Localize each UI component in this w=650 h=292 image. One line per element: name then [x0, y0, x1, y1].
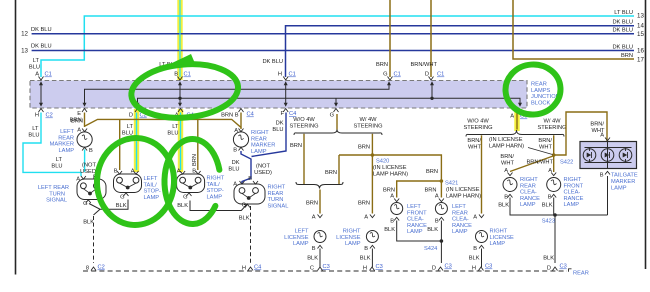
svg-text:LAMP: LAMP — [520, 202, 536, 208]
svg-text:A: A — [77, 128, 81, 134]
svg-text:(IN LICENSE: (IN LICENSE — [373, 165, 407, 171]
svg-text:BRN: BRN — [70, 118, 82, 124]
svg-text:RIGHT: RIGHT — [520, 177, 538, 183]
svg-text:14: 14 — [637, 23, 644, 30]
svg-text:BRN: BRN — [306, 201, 318, 207]
svg-text:C4: C4 — [254, 265, 261, 271]
svg-text:LEFT: LEFT — [407, 204, 421, 210]
svg-text:B: B — [312, 246, 316, 252]
svg-text:RIGHT: RIGHT — [343, 229, 361, 235]
svg-text:LT: LT — [33, 58, 40, 64]
svg-text:BLK: BLK — [542, 203, 553, 209]
svg-text:H: H — [472, 266, 476, 272]
svg-text:H: H — [242, 266, 246, 272]
svg-text:A: A — [76, 177, 80, 183]
svg-text:S423: S423 — [542, 219, 555, 225]
svg-text:TAIL/: TAIL/ — [144, 182, 158, 188]
svg-text:BLK: BLK — [83, 220, 94, 226]
svg-text:BLU: BLU — [51, 164, 62, 170]
svg-text:CLEA-: CLEA- — [564, 190, 581, 196]
svg-text:A: A — [364, 215, 368, 221]
svg-text:C3: C3 — [560, 264, 567, 270]
svg-text:RIGHT: RIGHT — [268, 185, 286, 191]
svg-text:A: A — [233, 182, 237, 188]
svg-text:D: D — [432, 266, 436, 272]
svg-text:17: 17 — [637, 57, 644, 64]
svg-text:SIGNAL: SIGNAL — [46, 198, 67, 204]
svg-text:BLU: BLU — [28, 133, 39, 139]
svg-text:15: 15 — [637, 31, 644, 38]
svg-text:G: G — [120, 195, 124, 201]
svg-text:BRN: BRN — [290, 143, 302, 149]
svg-text:C1: C1 — [437, 72, 444, 78]
svg-text:B: B — [473, 246, 477, 252]
svg-text:LAMP: LAMP — [490, 241, 506, 247]
svg-text:A: A — [510, 114, 514, 120]
svg-text:REAR: REAR — [58, 135, 74, 141]
svg-text:LT: LT — [56, 157, 63, 163]
svg-text:LAMP HARN): LAMP HARN) — [446, 194, 481, 200]
svg-text:H: H — [35, 113, 39, 119]
svg-text:BRN: BRN — [376, 62, 388, 68]
svg-text:B: B — [435, 219, 439, 225]
svg-text:DK BLU: DK BLU — [612, 45, 633, 51]
svg-text:RANCE: RANCE — [564, 196, 584, 202]
svg-text:BRN/: BRN/ — [590, 122, 604, 128]
svg-text:(IN LICENSE: (IN LICENSE — [489, 137, 523, 143]
svg-text:LAMP: LAMP — [345, 241, 361, 247]
svg-text:STOP-: STOP- — [207, 188, 224, 194]
svg-text:DK BLU: DK BLU — [31, 27, 52, 33]
svg-text:RIGHT: RIGHT — [251, 130, 269, 136]
svg-text:LAMP: LAMP — [611, 186, 627, 192]
svg-text:BLK: BLK — [384, 227, 395, 233]
svg-text:W/ 4W: W/ 4W — [543, 119, 561, 125]
svg-text:CLEA-: CLEA- — [520, 190, 537, 196]
svg-text:C3: C3 — [376, 264, 383, 270]
svg-text:LT: LT — [172, 124, 179, 130]
svg-text:LICENSE: LICENSE — [490, 235, 515, 241]
svg-text:STEERING: STEERING — [463, 125, 492, 131]
svg-text:A: A — [473, 215, 477, 221]
svg-text:LAMP: LAMP — [564, 202, 580, 208]
svg-text:MARKER: MARKER — [611, 179, 635, 185]
svg-text:B: B — [390, 219, 394, 225]
svg-text:C1: C1 — [394, 72, 401, 78]
svg-text:WHT: WHT — [539, 145, 552, 151]
svg-text:FRONT: FRONT — [407, 210, 427, 216]
svg-text:RANCE: RANCE — [407, 223, 427, 229]
svg-text:BRN: BRN — [192, 154, 198, 166]
svg-text:A: A — [177, 169, 181, 175]
svg-text:LEFT: LEFT — [144, 176, 158, 182]
svg-text:BLK: BLK — [239, 216, 250, 222]
svg-text:BRN: BRN — [621, 53, 633, 59]
svg-text:RANCE: RANCE — [452, 223, 472, 229]
svg-text:BRN/WHT: BRN/WHT — [410, 62, 437, 68]
svg-text:B: B — [504, 195, 508, 201]
svg-text:DK: DK — [276, 121, 284, 127]
svg-text:LEFT: LEFT — [452, 204, 466, 210]
svg-text:G: G — [330, 113, 334, 119]
svg-text:TAILGATE: TAILGATE — [611, 173, 638, 179]
svg-text:LICENSE: LICENSE — [284, 235, 309, 241]
svg-text:A: A — [131, 169, 135, 175]
svg-text:W/O 4W: W/O 4W — [293, 117, 315, 123]
svg-text:A: A — [504, 168, 508, 174]
svg-text:BLK: BLK — [177, 203, 188, 209]
svg-text:REAR: REAR — [268, 191, 284, 197]
svg-text:BRN/: BRN/ — [467, 138, 481, 144]
svg-text:BRN: BRN — [325, 170, 337, 176]
svg-text:W/O 4W: W/O 4W — [467, 119, 489, 125]
svg-text:(NOT: (NOT — [82, 163, 96, 169]
svg-text:S421: S421 — [445, 181, 458, 187]
svg-text:S424: S424 — [424, 246, 437, 252]
svg-text:STEERING: STEERING — [353, 124, 382, 130]
svg-text:8: 8 — [86, 266, 89, 272]
svg-text:B: B — [192, 169, 196, 175]
svg-text:13: 13 — [637, 13, 644, 20]
svg-text:BRN: BRN — [426, 169, 438, 175]
svg-text:C: C — [310, 266, 314, 272]
svg-text:C3: C3 — [323, 264, 330, 270]
svg-text:C4: C4 — [247, 112, 254, 118]
svg-text:BLK: BLK — [469, 256, 480, 262]
svg-text:S422: S422 — [560, 160, 573, 166]
svg-text:C3: C3 — [485, 264, 492, 270]
svg-text:LAMP: LAMP — [59, 148, 75, 154]
svg-text:REAR: REAR — [251, 136, 267, 142]
svg-text:CLEA-: CLEA- — [407, 217, 424, 223]
svg-text:B: B — [364, 246, 368, 252]
svg-text:BRN/: BRN/ — [500, 154, 514, 160]
svg-text:TAIL/: TAIL/ — [207, 182, 221, 188]
svg-text:STOP-: STOP- — [144, 189, 161, 195]
svg-text:D: D — [129, 113, 133, 119]
svg-text:LEFT: LEFT — [60, 129, 74, 135]
svg-text:BRN B: BRN B — [221, 113, 239, 119]
svg-text:BLU: BLU — [167, 131, 178, 137]
svg-text:BLOCK: BLOCK — [531, 100, 550, 106]
svg-text:LAMP: LAMP — [293, 241, 309, 247]
svg-text:A: A — [312, 215, 316, 221]
svg-text:A: A — [390, 194, 394, 200]
svg-text:D: D — [547, 266, 551, 272]
svg-text:BRN/WHT: BRN/WHT — [526, 160, 553, 166]
svg-text:WHT: WHT — [592, 128, 605, 134]
svg-text:A: A — [234, 128, 238, 134]
svg-text:BLK: BLK — [307, 256, 318, 262]
svg-text:LEFT: LEFT — [295, 229, 309, 235]
svg-text:BLK: BLK — [543, 256, 554, 262]
svg-text:B: B — [233, 148, 237, 154]
svg-text:B: B — [89, 148, 93, 154]
svg-text:BLU: BLU — [272, 127, 283, 133]
svg-text:BLK: BLK — [427, 227, 438, 233]
svg-text:A: A — [548, 168, 552, 174]
svg-text:TURN: TURN — [268, 197, 284, 203]
svg-text:G: G — [83, 201, 87, 207]
svg-text:DK BLU: DK BLU — [262, 59, 283, 65]
svg-text:(NOT: (NOT — [256, 164, 270, 170]
svg-text:REAR: REAR — [520, 183, 536, 189]
svg-text:G: G — [383, 72, 387, 78]
svg-text:W/ 4W: W/ 4W — [359, 117, 377, 123]
svg-text:LAMP: LAMP — [407, 229, 423, 235]
svg-text:H: H — [363, 266, 367, 272]
svg-text:USED): USED) — [254, 170, 272, 176]
svg-text:BLK: BLK — [116, 203, 127, 209]
svg-text:FRONT: FRONT — [564, 183, 584, 189]
svg-text:TURN: TURN — [49, 191, 65, 197]
svg-text:LAMP: LAMP — [207, 195, 223, 201]
svg-text:C2: C2 — [46, 113, 53, 119]
svg-text:C2: C2 — [98, 265, 105, 271]
svg-text:BLU: BLU — [29, 65, 40, 71]
svg-text:MARKER: MARKER — [251, 143, 275, 149]
svg-text:E: E — [77, 111, 81, 117]
svg-text:B: B — [248, 176, 252, 182]
svg-text:C1: C1 — [184, 72, 191, 78]
svg-text:BLK: BLK — [498, 203, 509, 209]
svg-text:DK: DK — [232, 160, 240, 166]
svg-text:DK BLU: DK BLU — [612, 20, 633, 26]
svg-text:RIGHT: RIGHT — [564, 177, 582, 183]
svg-text:S420: S420 — [376, 159, 389, 165]
svg-text:13: 13 — [21, 48, 28, 55]
svg-text:CLEA-: CLEA- — [452, 217, 469, 223]
svg-text:BRN: BRN — [358, 145, 370, 151]
svg-text:F: F — [281, 111, 285, 117]
svg-text:SIGNAL: SIGNAL — [268, 204, 289, 210]
svg-text:12: 12 — [21, 31, 28, 38]
svg-text:LAMP: LAMP — [144, 195, 160, 201]
svg-text:REAR: REAR — [573, 271, 589, 277]
svg-text:DK BLU: DK BLU — [612, 28, 633, 34]
svg-text:BRN: BRN — [358, 201, 370, 207]
svg-text:G: G — [183, 195, 187, 201]
svg-text:LAMP: LAMP — [452, 229, 468, 235]
svg-text:LT: LT — [32, 126, 39, 132]
svg-text:B: B — [548, 195, 552, 201]
svg-text:BLU: BLU — [228, 167, 239, 173]
svg-text:BRN/: BRN/ — [538, 138, 552, 144]
svg-text:REAR: REAR — [452, 210, 468, 216]
svg-text:MARKER: MARKER — [50, 142, 74, 148]
svg-text:B: B — [114, 169, 118, 175]
svg-text:B: B — [600, 173, 604, 179]
svg-text:LAMP HARN): LAMP HARN) — [489, 144, 524, 150]
svg-text:LICENSE: LICENSE — [336, 235, 361, 241]
svg-text:LT BLU: LT BLU — [614, 10, 633, 16]
svg-text:C1: C1 — [45, 72, 52, 78]
svg-text:C1: C1 — [289, 72, 296, 78]
svg-text:LEFT REAR: LEFT REAR — [38, 185, 69, 191]
svg-text:C3: C3 — [445, 264, 452, 270]
svg-text:REAR: REAR — [531, 82, 547, 88]
svg-text:(IN LICENSE: (IN LICENSE — [446, 187, 480, 193]
svg-text:STEERING: STEERING — [537, 125, 566, 131]
svg-text:A: A — [435, 194, 439, 200]
svg-text:RANCE: RANCE — [520, 196, 540, 202]
svg-text:LAMPS: LAMPS — [531, 88, 550, 94]
svg-text:RIGHT: RIGHT — [490, 229, 508, 235]
svg-text:WHT: WHT — [501, 161, 514, 167]
svg-text:LAMP HARN): LAMP HARN) — [373, 172, 408, 178]
svg-text:RIGHT: RIGHT — [207, 176, 225, 182]
svg-text:BLK: BLK — [360, 256, 371, 262]
svg-text:WHT: WHT — [468, 145, 481, 151]
svg-text:LT: LT — [127, 124, 134, 130]
svg-text:16: 16 — [637, 48, 644, 55]
svg-text:STEERING: STEERING — [289, 124, 318, 130]
svg-text:H: H — [278, 72, 282, 78]
svg-text:DK BLU: DK BLU — [31, 44, 52, 50]
